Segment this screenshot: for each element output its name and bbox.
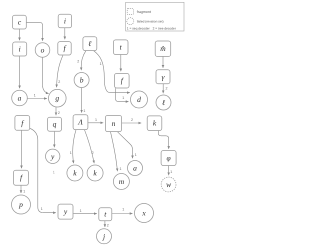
wire f2 to d <box>116 88 129 102</box>
wire k to q2 <box>158 131 168 149</box>
wire Lam to k1 <box>73 130 76 163</box>
svg-text:1: 1 <box>135 153 137 157</box>
svg-text:q: q <box>53 120 57 129</box>
svg-text:failed (revision set): failed (revision set) <box>137 20 164 24</box>
wire o to g <box>43 57 49 93</box>
svg-text:Λ: Λ <box>77 117 83 126</box>
svg-text:i: i <box>19 45 21 54</box>
wire n to k <box>122 122 142 124</box>
legend square icon <box>127 9 133 15</box>
svg-text:1: 1 <box>34 93 36 97</box>
svg-text:a: a <box>18 94 22 103</box>
node w dashed <box>161 177 176 192</box>
svg-text:p: p <box>18 200 23 209</box>
node Lam <box>73 115 88 130</box>
node d <box>131 91 148 108</box>
wire i1 to a <box>19 56 21 88</box>
legend circle icon <box>127 18 134 25</box>
svg-text:1: 1 <box>53 170 55 174</box>
node k1 <box>67 165 83 181</box>
node p <box>12 195 31 214</box>
wire fL to tB long elbow <box>30 128 56 212</box>
wire yB to tB <box>73 213 97 215</box>
svg-text:2: 2 <box>77 59 79 63</box>
node f1 <box>58 42 71 55</box>
node t <box>113 40 128 55</box>
wire fL2 to p <box>20 185 22 193</box>
node i1 <box>13 42 27 56</box>
wire t to f2 <box>120 55 122 72</box>
svg-text:2: 2 <box>166 87 168 91</box>
wire q2 to w <box>168 166 170 176</box>
node b <box>74 73 89 88</box>
node x <box>135 204 154 223</box>
node a2 <box>128 161 143 176</box>
svg-text:2: 2 <box>92 151 94 155</box>
node y <box>46 149 60 163</box>
node q <box>48 117 62 131</box>
svg-text:2: 2 <box>131 118 133 122</box>
node j <box>97 229 112 244</box>
node o <box>35 43 50 58</box>
node fL <box>15 116 30 131</box>
svg-text:1: 1 <box>95 118 97 122</box>
node m <box>113 174 129 190</box>
wire Lam to n <box>88 122 103 124</box>
wire tB to j <box>104 221 106 227</box>
node f2 <box>115 73 130 88</box>
wire l to d <box>94 51 130 93</box>
wire i2 to f1 <box>64 28 66 40</box>
svg-text:1: 1 <box>70 151 72 155</box>
svg-text:y: y <box>63 207 68 216</box>
svg-text:i: i <box>64 16 66 25</box>
svg-text:m̂: m̂ <box>160 44 166 53</box>
svg-text:m: m <box>119 177 125 186</box>
node g <box>49 89 67 107</box>
wire b to Lam <box>81 88 83 113</box>
svg-text:2 = tree decoder: 2 = tree decoder <box>153 27 177 31</box>
node yB <box>58 204 73 219</box>
svg-text:n: n <box>112 119 116 128</box>
svg-text:a: a <box>133 164 137 173</box>
svg-text:o: o <box>41 45 45 54</box>
svg-text:1: 1 <box>170 170 172 174</box>
svg-text:1: 1 <box>122 208 124 212</box>
node l <box>83 37 97 51</box>
svg-text:2: 2 <box>58 111 60 115</box>
svg-text:d: d <box>137 95 141 104</box>
svg-text:b: b <box>80 76 84 85</box>
node k2 <box>87 165 103 181</box>
svg-text:2: 2 <box>107 224 109 228</box>
svg-text:x: x <box>141 209 146 218</box>
node k <box>147 116 162 131</box>
node i2 <box>58 14 71 27</box>
node lam <box>155 41 171 56</box>
node gam <box>156 70 170 84</box>
svg-text:1: 1 <box>80 209 82 213</box>
wire g to q <box>55 107 57 115</box>
svg-text:w: w <box>166 180 171 189</box>
wire fL to fL2 <box>21 130 23 168</box>
node n <box>105 115 121 131</box>
wire c to o <box>26 22 42 41</box>
svg-text:1: 1 <box>122 96 124 100</box>
wire tB to x <box>112 213 133 215</box>
wire Lam to k2 <box>85 130 95 163</box>
node q2 <box>161 151 176 166</box>
wire a to g <box>27 98 47 100</box>
svg-text:y: y <box>50 152 55 161</box>
svg-text:1: 1 <box>23 190 25 194</box>
svg-text:g: g <box>55 94 59 103</box>
legend box <box>126 2 184 31</box>
node a <box>12 90 28 106</box>
svg-text:φ: φ <box>167 154 171 163</box>
svg-text:1: 1 <box>100 62 102 66</box>
wire n to a2 <box>118 132 133 159</box>
node tB <box>99 208 112 221</box>
svg-text:2: 2 <box>58 80 60 84</box>
wire gam to eps <box>162 84 164 93</box>
node fL2 <box>14 170 29 185</box>
wire l to b <box>81 51 86 71</box>
wire n to m <box>111 132 118 171</box>
wire q to y <box>53 132 55 148</box>
svg-text:1: 1 <box>41 207 43 211</box>
svg-text:fragment: fragment <box>137 10 151 14</box>
wire c to i1 <box>19 29 21 40</box>
wire lam to gam <box>162 56 164 67</box>
svg-text:1: 1 <box>120 167 122 171</box>
node c <box>13 15 27 29</box>
wire f1 to g <box>57 55 63 87</box>
node eps <box>156 95 171 110</box>
svg-text:1: 1 <box>83 109 85 113</box>
svg-text:1 = seq decoder: 1 = seq decoder <box>127 27 151 31</box>
svg-text:j: j <box>102 232 105 241</box>
